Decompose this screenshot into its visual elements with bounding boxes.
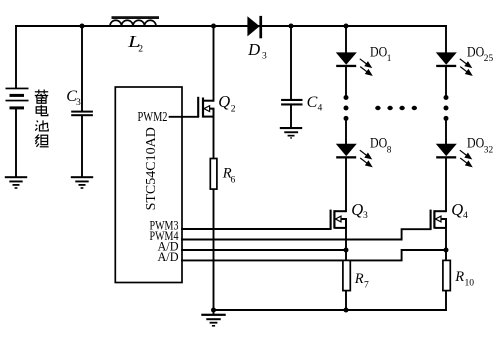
- svg-text:D: D: [247, 40, 260, 59]
- svg-text:7: 7: [364, 280, 369, 291]
- svg-text:3: 3: [363, 210, 368, 221]
- svg-text:10: 10: [465, 278, 475, 289]
- svg-text:STC54C10AD: STC54C10AD: [144, 127, 159, 210]
- svg-text:A/D: A/D: [158, 250, 179, 264]
- svg-text:Q: Q: [351, 200, 363, 219]
- svg-text:Q: Q: [451, 200, 463, 219]
- svg-text:2: 2: [231, 104, 236, 115]
- svg-text:DO: DO: [467, 136, 484, 152]
- svg-text:Q: Q: [218, 92, 230, 111]
- svg-text:1: 1: [387, 54, 392, 64]
- svg-text:DO: DO: [370, 136, 387, 152]
- svg-text:2: 2: [138, 44, 143, 55]
- svg-text:PWM2: PWM2: [138, 110, 168, 125]
- svg-text:3: 3: [262, 51, 267, 62]
- svg-text:6: 6: [231, 175, 236, 186]
- svg-text:25: 25: [484, 54, 494, 64]
- svg-text:4: 4: [318, 103, 323, 114]
- svg-text:DO: DO: [370, 45, 387, 61]
- svg-text:C: C: [307, 94, 318, 111]
- svg-text:R: R: [454, 269, 464, 285]
- svg-text:32: 32: [484, 145, 494, 155]
- svg-text:3: 3: [76, 97, 81, 108]
- svg-text:8: 8: [387, 145, 392, 155]
- svg-text:DO: DO: [467, 45, 484, 61]
- svg-text:R: R: [354, 271, 364, 287]
- svg-text:4: 4: [463, 210, 468, 221]
